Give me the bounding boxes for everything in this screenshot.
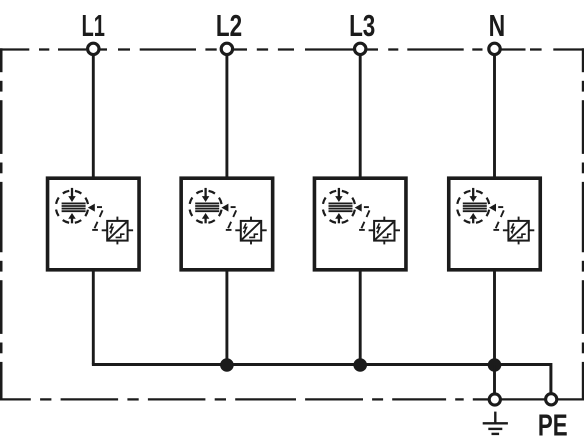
trigger device box U3 bbox=[369, 217, 400, 245]
spark gap F1: dashed circle bbox=[56, 191, 88, 223]
spark gap F1: bottom arrow bbox=[68, 213, 76, 223]
trigger arrow pointing at spark gap bbox=[88, 204, 102, 212]
spark gap F4: top arrow bbox=[469, 188, 477, 202]
SPD module box (branch L3) bbox=[314, 178, 406, 270]
trigger arrow pointing at spark gap bbox=[489, 204, 503, 212]
wire from terminal N down to SPD module bbox=[493, 56, 496, 179]
wire from SPD module down to PE bus bbox=[359, 270, 362, 365]
junction dot (L3 branch to bus) bbox=[353, 358, 367, 372]
spark gap F2: top arrow bbox=[202, 188, 210, 202]
SPD module box (branch L2) bbox=[181, 178, 273, 270]
spark gap F3: top arrow bbox=[335, 188, 343, 202]
spark gap F1: electrode stack bbox=[62, 203, 86, 211]
terminal L3: open circle bbox=[355, 43, 366, 54]
trigger arrow pointing at spark gap bbox=[355, 204, 369, 212]
terminal N: open circle bbox=[489, 43, 500, 54]
trigger device box U2 bbox=[235, 217, 266, 245]
dashed trigger line bbox=[359, 210, 369, 230]
spark gap F4: dashed circle bbox=[457, 191, 489, 223]
trigger arrow pointing at spark gap bbox=[221, 204, 235, 212]
svg-text:N: N bbox=[489, 8, 506, 43]
spark gap F4: electrode stack bbox=[463, 203, 487, 211]
trigger device box U1 bbox=[102, 217, 133, 245]
junction dot (N branch to bus) bbox=[488, 358, 502, 372]
trigger device box U4 bbox=[503, 217, 534, 245]
wire from terminal L1 down to SPD module bbox=[92, 56, 95, 179]
wire from SPD module down to PE bus bbox=[493, 270, 496, 365]
spark gap F1: top arrow bbox=[68, 188, 76, 202]
PE terminal: open circle bbox=[546, 394, 557, 405]
spark gap F3: bottom arrow bbox=[335, 213, 343, 223]
SPD module box (branch L1) bbox=[48, 178, 140, 270]
wire from SPD module down to PE bus bbox=[225, 270, 228, 365]
ground symbol bbox=[483, 412, 508, 434]
junction dot (L2 branch to bus) bbox=[220, 358, 234, 372]
spark gap F2: electrode stack bbox=[195, 203, 219, 211]
spark gap F2: dashed circle bbox=[189, 191, 221, 223]
svg-text:PE: PE bbox=[538, 408, 568, 442]
spark gap F3: electrode stack bbox=[329, 203, 353, 211]
enclosure border: bottom dash-dot line bbox=[0, 398, 584, 400]
dashed trigger line bbox=[92, 210, 102, 230]
dashed trigger line bbox=[226, 210, 236, 230]
svg-text:L2: L2 bbox=[216, 7, 242, 42]
spark gap F4: bottom arrow bbox=[469, 213, 477, 223]
wire from N-branch junction down to ground terminal bbox=[493, 365, 496, 394]
wire from SPD module down to PE bus bbox=[92, 270, 95, 365]
svg-text:L1: L1 bbox=[81, 8, 104, 44]
enclosure border: left dash-dot line bbox=[0, 48, 3, 400]
wire from terminal L2 down to SPD module bbox=[225, 56, 228, 179]
enclosure border: top dash-dot line bbox=[0, 48, 584, 50]
terminal L1: open circle bbox=[88, 43, 99, 54]
wire from terminal L3 down to SPD module bbox=[359, 56, 362, 179]
ground terminal: open circle bbox=[489, 394, 500, 405]
terminal L2: open circle bbox=[221, 43, 232, 54]
spark gap F3: dashed circle bbox=[323, 191, 355, 223]
spark gap F2: bottom arrow bbox=[202, 213, 210, 223]
SPD module box (branch N) bbox=[449, 178, 541, 270]
enclosure border: right dash-dot line bbox=[582, 48, 584, 400]
PE equipotential bus wire bbox=[92, 365, 551, 393]
dashed trigger line bbox=[493, 210, 503, 230]
svg-text:L3: L3 bbox=[349, 7, 375, 42]
